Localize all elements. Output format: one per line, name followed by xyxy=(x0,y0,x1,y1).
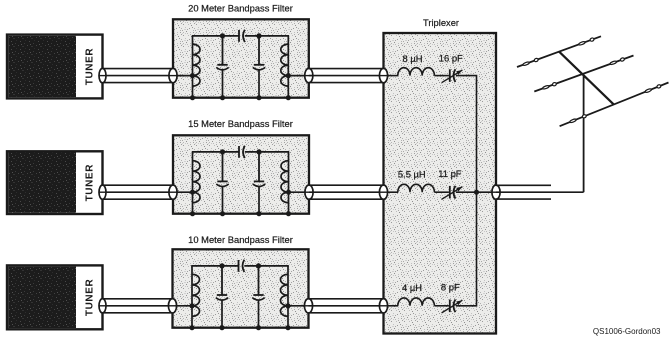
junction dot at input tap, filter 2 xyxy=(190,190,195,195)
antenna element: director xyxy=(517,36,601,67)
inductor triplexer branch 3 xyxy=(398,298,435,306)
junction dot top rail at cap1, filter 3 xyxy=(219,263,224,268)
wire: branch 2 to output xyxy=(456,191,494,193)
trap insulator (circle) on director xyxy=(590,37,595,41)
junction dot bottom rail 4, filter 3 xyxy=(285,325,290,330)
bandpass filter box 3 xyxy=(173,249,309,327)
bandpass filter box 2 xyxy=(173,135,309,213)
svg-text:15 Meter Bandpass Filter: 15 Meter Bandpass Filter xyxy=(188,118,293,129)
junction dot top rail at cap1, filter 1 xyxy=(220,33,225,38)
wire: coil tap to filter 3 output xyxy=(288,305,306,307)
coax cable tuner 3 to filter (shield + center) xyxy=(103,299,173,313)
wire: branch 3 to common bus xyxy=(456,192,477,306)
junction dot at output tap, filter 3 xyxy=(285,303,290,308)
coax connector at triplexer output xyxy=(492,185,500,199)
coax connector at triplexer input 3 xyxy=(379,299,387,313)
inductor filter 2 output coil (tapped) xyxy=(281,152,289,214)
antenna boom xyxy=(559,51,614,104)
svg-text:11 pF: 11 pF xyxy=(438,168,462,179)
junction dot top rail at cap2, filter 2 xyxy=(256,149,261,154)
inductor filter 1 output coil (tapped) xyxy=(281,36,289,98)
svg-text:Triplexer: Triplexer xyxy=(423,17,459,28)
svg-text:QS1006-Gordon03: QS1006-Gordon03 xyxy=(593,327,661,336)
junction dot top rail at cap2, filter 3 xyxy=(256,263,261,268)
coax connector at tuner 3 output xyxy=(99,299,106,313)
wire: filter 3 top rail right xyxy=(244,265,288,267)
svg-text:20 Meter Bandpass Filter: 20 Meter Bandpass Filter xyxy=(188,2,293,13)
wire: triplexer branch 3 input xyxy=(387,305,398,307)
coupling capacitor filter 1 (series, top) xyxy=(239,30,245,42)
trap insulator (circle) on driven element xyxy=(552,82,557,86)
coax cable filter 2 to triplexer xyxy=(309,185,384,199)
shunt capacitor 1 filter 2 xyxy=(216,152,228,214)
coax connector at tuner 2 output xyxy=(99,185,106,199)
coax connector at triplexer input 1 xyxy=(379,68,387,82)
trap insulator (circle) on reflector xyxy=(582,114,587,118)
shunt capacitor 1 filter 1 xyxy=(216,36,228,98)
coax cable tuner 2 to filter (shield + center) xyxy=(103,185,174,199)
junction dot bottom rail 1, filter 3 xyxy=(189,325,194,330)
junction dot at input tap, filter 1 xyxy=(190,73,195,78)
bandpass filter box 1 xyxy=(173,19,309,97)
junction dot bottom rail 2, filter 3 xyxy=(219,325,224,330)
tuner box 2 xyxy=(7,151,103,214)
junction dot top rail at cap1, filter 2 xyxy=(220,149,225,154)
antenna element: reflector xyxy=(560,83,669,127)
junction dot bottom rail 3, filter 2 xyxy=(256,211,261,216)
trap insulator (oval) on driven element xyxy=(542,85,549,90)
coax connector at filter 2 input xyxy=(169,185,177,199)
junction dot at output tap, filter 1 xyxy=(286,73,291,78)
svg-text:4 µH: 4 µH xyxy=(402,282,422,293)
junction dot at output tap, filter 2 xyxy=(286,190,291,195)
junction dot bottom rail 1, filter 2 xyxy=(190,211,195,216)
wire: coil to capacitor branch 1 xyxy=(434,75,449,77)
svg-text:8 pF: 8 pF xyxy=(441,282,460,293)
variable capacitor triplexer branch 3 xyxy=(442,299,463,313)
svg-text:8 µH: 8 µH xyxy=(403,53,423,64)
wire: branch 1 to common bus xyxy=(456,76,477,193)
trap insulator (circle) on driven element xyxy=(620,57,625,61)
wire: filter 3 input to coil tap xyxy=(176,305,193,307)
junction dot top rail at cap2, filter 1 xyxy=(256,33,261,38)
tuner box 1 xyxy=(7,35,103,99)
svg-text:TUNER: TUNER xyxy=(85,279,96,317)
wire: filter 1 top rail left xyxy=(192,35,239,37)
coax connector at filter 3 input xyxy=(168,299,176,313)
wire: coil tap to filter 2 output xyxy=(289,191,307,193)
coax cable filter 3 to triplexer xyxy=(309,299,384,313)
wire: triplexer branch 2 input xyxy=(387,191,398,193)
trap insulator (circle) on reflector xyxy=(657,84,662,88)
coax connector at tuner 1 output xyxy=(99,68,106,82)
junction dot at input tap, filter 3 xyxy=(189,303,194,308)
inductor triplexer branch 2 xyxy=(398,184,435,192)
trap insulator (oval) on reflector xyxy=(569,118,576,123)
wire: filter 3 top rail left xyxy=(191,265,238,267)
svg-text:5.5 µH: 5.5 µH xyxy=(398,169,426,180)
coax connector at filter 1 output xyxy=(305,68,313,82)
variable capacitor triplexer branch 1 xyxy=(442,69,463,83)
inductor filter 1 input coil (tapped) xyxy=(193,36,201,98)
junction dot bottom rail 2, filter 1 xyxy=(220,95,225,100)
svg-text:16 pF: 16 pF xyxy=(439,53,463,64)
tuner box 3 xyxy=(7,265,103,329)
wire: filter 1 top rail right xyxy=(245,35,289,37)
variable capacitor triplexer branch 2 xyxy=(442,186,463,200)
wire: filter 2 input to coil tap xyxy=(176,191,193,193)
antenna element: driven element xyxy=(534,56,633,92)
inductor triplexer branch 1 xyxy=(398,68,435,76)
wire: triplexer branch 1 input xyxy=(387,75,398,77)
wire: filter 2 top rail right xyxy=(245,151,289,153)
wire: coil tap to filter 1 output xyxy=(288,75,306,77)
coax connector at filter 3 output xyxy=(304,299,312,313)
shunt capacitor 2 filter 1 xyxy=(253,36,265,98)
wire: output center conductor to antenna feed xyxy=(496,191,584,193)
coupling capacitor filter 3 (series, top) xyxy=(239,260,245,272)
junction dot bottom rail 2, filter 2 xyxy=(220,211,225,216)
trap insulator (oval) on reflector xyxy=(645,88,652,93)
inductor filter 3 output coil (tapped) xyxy=(281,266,289,328)
wire: filter 2 top rail left xyxy=(192,151,239,153)
trap insulator (oval) on director xyxy=(578,41,585,46)
coax connector at triplexer input 2 xyxy=(379,185,387,199)
coupling capacitor filter 2 (series, top) xyxy=(239,146,245,158)
trap insulator (circle) on director xyxy=(534,58,539,62)
junction dot common bus xyxy=(474,190,479,195)
coax cable triplexer output (shield) xyxy=(496,185,551,199)
wire: antenna feed line (vertical) xyxy=(583,74,585,192)
svg-text:10 Meter Bandpass Filter: 10 Meter Bandpass Filter xyxy=(188,234,293,245)
wire: filter 1 input to coil tap xyxy=(176,75,193,77)
trap insulator (oval) on driven element xyxy=(610,61,617,66)
coax connector at filter 2 output xyxy=(305,185,313,199)
svg-text:TUNER: TUNER xyxy=(85,164,96,202)
trap insulator (oval) on director xyxy=(523,61,530,66)
junction dot bottom rail 3, filter 1 xyxy=(256,95,261,100)
shunt capacitor 1 filter 3 xyxy=(216,266,228,328)
junction dot bottom rail 4, filter 2 xyxy=(286,211,291,216)
shunt capacitor 2 filter 3 xyxy=(252,266,264,328)
triplexer box xyxy=(384,33,497,334)
inductor filter 3 input coil (tapped) xyxy=(192,266,200,328)
wire: coil to capacitor branch 2 xyxy=(434,191,449,193)
inductor filter 2 input coil (tapped) xyxy=(193,152,201,214)
shunt capacitor 2 filter 2 xyxy=(253,152,265,214)
junction dot bottom rail 1, filter 1 xyxy=(190,95,195,100)
junction dot bottom rail 4, filter 1 xyxy=(286,95,291,100)
coax cable tuner 1 to filter (shield + center) xyxy=(103,69,174,83)
svg-text:TUNER: TUNER xyxy=(85,48,96,86)
coax cable filter 1 to triplexer xyxy=(309,69,384,83)
junction dot bottom rail 3, filter 3 xyxy=(256,325,261,330)
coax connector at filter 1 input xyxy=(169,68,177,82)
wire: coil to capacitor branch 3 xyxy=(434,305,449,307)
